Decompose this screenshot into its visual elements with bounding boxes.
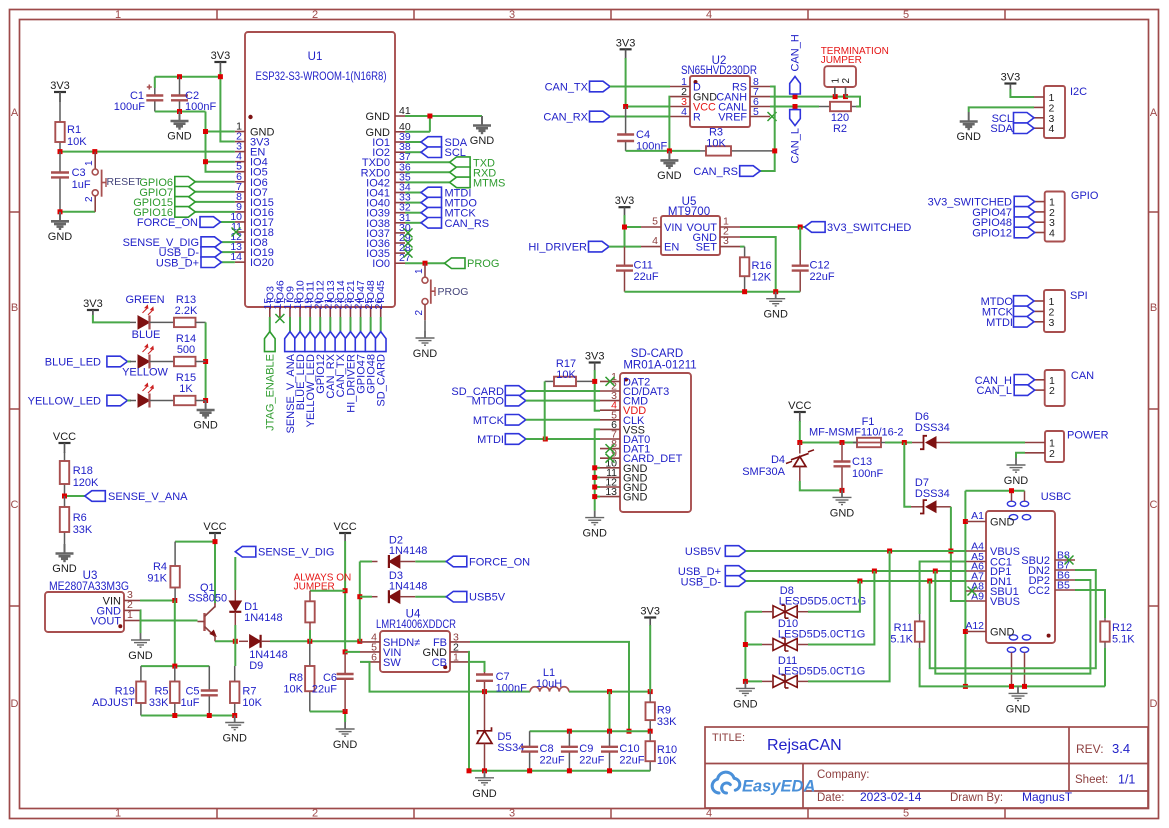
U1 pin 3 EN bbox=[235, 151, 245, 153]
net flag CAN_TX (U1 bottom) bbox=[339, 317, 341, 332]
U1 pin 26 IO45 bbox=[380, 307, 382, 317]
wire D7 to VBUS bbox=[951, 507, 966, 601]
wire D+ net bbox=[746, 570, 966, 572]
U5 pin 4 EN bbox=[641, 246, 661, 248]
svg-text:C8: C8 bbox=[540, 743, 554, 755]
svg-text:HI_DRIVER: HI_DRIVER bbox=[528, 242, 587, 254]
svg-text:A12: A12 bbox=[965, 620, 984, 632]
svg-text:IO20: IO20 bbox=[250, 257, 274, 269]
U2 pin 6 CANL bbox=[750, 106, 770, 108]
svg-text:VCC: VCC bbox=[203, 521, 226, 533]
SD pin 12 GND bbox=[600, 486, 620, 488]
no-connect X pin11 bbox=[232, 228, 241, 237]
svg-text:SPI: SPI bbox=[1070, 290, 1088, 302]
USBC pin B7 DN2 bbox=[1055, 569, 1075, 571]
U1 pin 41 GND bbox=[395, 115, 405, 117]
U1 pin 29 IO36 bbox=[395, 242, 405, 244]
U1 pin 32 IO39 bbox=[395, 212, 405, 214]
svg-text:REV:: REV: bbox=[1076, 742, 1104, 756]
resistor R1 bbox=[59, 92, 61, 122]
resistor R7 bbox=[234, 666, 236, 682]
wire U1 GND pins 41/40 bbox=[405, 115, 482, 117]
U1 pin 14 IO20 bbox=[235, 261, 245, 263]
svg-text:R8: R8 bbox=[289, 672, 303, 684]
svg-text:C5: C5 bbox=[185, 686, 199, 698]
connector SPI bbox=[1044, 290, 1065, 332]
wire C1/C2 ground rail bbox=[155, 111, 206, 113]
svg-text:GND: GND bbox=[990, 627, 1015, 639]
USBC pin A1 GND bbox=[966, 521, 986, 523]
net flag GPIO7 bbox=[195, 191, 235, 193]
svg-text:R: R bbox=[693, 112, 701, 124]
connector POWER bbox=[1045, 431, 1064, 462]
svg-text:EN: EN bbox=[664, 242, 679, 254]
capacitor C2 bbox=[179, 77, 181, 96]
wire U4 GND down bbox=[469, 652, 470, 771]
wire VCC node bbox=[799, 421, 801, 443]
svg-text:3V3: 3V3 bbox=[83, 298, 103, 310]
svg-text:BLUE: BLUE bbox=[132, 329, 161, 341]
junction 3V3 rail bbox=[177, 74, 182, 79]
net flag GPIO6 bbox=[195, 181, 235, 183]
svg-text:10K: 10K bbox=[556, 369, 576, 381]
svg-text:3: 3 bbox=[509, 9, 515, 21]
svg-text:SD_CARD: SD_CARD bbox=[376, 354, 388, 407]
svg-text:JUMPER: JUMPER bbox=[821, 55, 862, 66]
svg-text:3V3: 3V3 bbox=[1001, 72, 1021, 84]
svg-text:PROG: PROG bbox=[467, 258, 499, 270]
svg-text:3V3: 3V3 bbox=[640, 606, 660, 618]
ground (USBC) bbox=[1009, 686, 1028, 700]
svg-text:CAN_L: CAN_L bbox=[977, 385, 1012, 397]
svg-text:RESET: RESET bbox=[107, 176, 143, 188]
svg-text:GND: GND bbox=[582, 528, 607, 540]
svg-text:22uF: 22uF bbox=[579, 755, 604, 767]
net flag MTDI (SPI conn) bbox=[1014, 317, 1035, 328]
svg-text:MF-MSMF110/16-2: MF-MSMF110/16-2 bbox=[809, 427, 904, 439]
svg-text:4: 4 bbox=[1049, 228, 1055, 240]
svg-text:22uF: 22uF bbox=[540, 755, 565, 767]
load switch U5 bbox=[661, 216, 720, 255]
wire TVS common to GND bbox=[744, 612, 746, 682]
U1 pin 11 IO18 bbox=[235, 231, 245, 233]
net flag JTAG_ENABLE bbox=[269, 317, 271, 332]
svg-text:1: 1 bbox=[414, 268, 425, 274]
svg-text:CAN_L: CAN_L bbox=[790, 128, 802, 163]
U4 pin 5 VIN bbox=[360, 651, 380, 653]
svg-text:USB_D+: USB_D+ bbox=[156, 258, 199, 270]
svg-text:10K: 10K bbox=[242, 697, 262, 709]
ground (C13) bbox=[833, 490, 852, 504]
svg-text:C: C bbox=[11, 499, 19, 511]
svg-text:5.1K: 5.1K bbox=[890, 634, 913, 646]
wire U2 GND pin2 down bbox=[668, 97, 671, 151]
U1 pin 25 IO48 bbox=[370, 307, 372, 317]
net flag 3V3_SWITCHED (GPIO conn) bbox=[1014, 196, 1035, 207]
net flag GPIO12 (GPIO conn) bbox=[1014, 227, 1035, 238]
wire POWER pin2 to GND bbox=[1016, 453, 1025, 458]
svg-text:3V3: 3V3 bbox=[211, 50, 231, 62]
LED BLUE + resistor R14 + flag BLUE_LED bbox=[107, 356, 128, 367]
wire VBUS net bbox=[746, 550, 966, 552]
svg-text:VCC: VCC bbox=[333, 521, 356, 533]
ground (PROG) bbox=[416, 331, 435, 345]
net flag GPIO47 (GPIO conn) bbox=[1014, 207, 1035, 218]
resistor R8 bbox=[309, 641, 311, 666]
ground (C2) bbox=[171, 112, 189, 129]
capacitor C13 bbox=[841, 443, 843, 462]
svg-text:3V3_SWITCHED: 3V3_SWITCHED bbox=[827, 222, 911, 234]
svg-text:5: 5 bbox=[753, 106, 759, 118]
U1 pin 16 IO46 bbox=[279, 307, 281, 317]
svg-text:CB: CB bbox=[432, 657, 447, 669]
svg-text:IO45: IO45 bbox=[375, 280, 387, 303]
svg-text:C10: C10 bbox=[619, 743, 639, 755]
wire SW to L1 bbox=[360, 662, 530, 692]
power flag VCC (Q1) bbox=[209, 532, 221, 534]
svg-text:GND: GND bbox=[1004, 475, 1029, 487]
svg-text:GND: GND bbox=[52, 563, 77, 575]
resistor R6 bbox=[64, 496, 66, 507]
svg-text:GND: GND bbox=[956, 131, 981, 143]
svg-text:GND: GND bbox=[413, 348, 438, 360]
wire RS to R3 and CAN_RS bbox=[760, 87, 775, 172]
USBC pin B5 CC2 bbox=[1055, 589, 1075, 591]
svg-text:R4: R4 bbox=[153, 561, 167, 573]
wire 3V3 drop to U1 bbox=[220, 72, 235, 142]
U3 pin 1 VOUT bbox=[124, 620, 140, 622]
jumper P? termination (2-pin) bbox=[824, 66, 856, 87]
svg-text:CAN_RX: CAN_RX bbox=[543, 112, 588, 124]
wire output caps rail bbox=[609, 692, 611, 732]
USBC pin A8 SBU1 bbox=[966, 590, 986, 592]
svg-text:13: 13 bbox=[605, 486, 617, 498]
svg-text:2: 2 bbox=[84, 196, 95, 202]
diode D5 SS34 bbox=[484, 692, 486, 731]
wire R17 to MTDI bbox=[544, 381, 546, 440]
svg-text:4: 4 bbox=[1049, 123, 1055, 135]
svg-text:GND: GND bbox=[1006, 703, 1031, 715]
svg-text:1/1: 1/1 bbox=[1118, 773, 1135, 787]
U1 pin 12 IO8 bbox=[235, 241, 245, 243]
capacitor C5 bbox=[208, 666, 210, 690]
U1 pin 37 TXD0 bbox=[395, 161, 405, 163]
ground (C3) bbox=[51, 212, 69, 229]
svg-text:FORCE_ON: FORCE_ON bbox=[137, 217, 198, 229]
wire 3V3 rail bbox=[155, 76, 221, 78]
svg-text:ADJUST: ADJUST bbox=[92, 697, 135, 709]
power flag 3V3 (output) bbox=[644, 616, 656, 618]
svg-text:MTMS: MTMS bbox=[473, 178, 505, 190]
svg-text:12K: 12K bbox=[752, 272, 772, 284]
svg-text:GREEN: GREEN bbox=[125, 294, 164, 306]
no-connect X pin16 bbox=[275, 314, 284, 323]
TVS diode D11 bbox=[773, 675, 797, 687]
svg-text:4: 4 bbox=[681, 106, 687, 118]
svg-text:4: 4 bbox=[652, 235, 658, 247]
U1 pin 30 IO37 bbox=[395, 232, 405, 234]
resistor R10 bbox=[649, 731, 651, 741]
net flag MTCK (SD) bbox=[505, 415, 526, 426]
svg-text:GND: GND bbox=[333, 739, 358, 751]
svg-text:A: A bbox=[11, 107, 19, 119]
U1 pin 5 IO5 bbox=[235, 171, 245, 173]
wire USBC shield to GND vertical bbox=[965, 490, 1024, 492]
net flag FORCE_ON (D2) bbox=[446, 556, 467, 567]
svg-text:3V3: 3V3 bbox=[585, 351, 605, 363]
U1 pin 13 IO19 bbox=[235, 251, 245, 253]
svg-text:Sheet:: Sheet: bbox=[1075, 774, 1108, 786]
svg-text:10K: 10K bbox=[706, 138, 726, 150]
svg-text:VBUS: VBUS bbox=[990, 596, 1020, 608]
net flag USB_D- (USBC) bbox=[725, 576, 746, 587]
capacitor C11 bbox=[624, 247, 626, 266]
net flag 3V3_SWITCHED bbox=[805, 222, 826, 233]
capacitor C1 bbox=[154, 77, 156, 88]
U5 pin 5 VIN bbox=[641, 226, 661, 228]
ground (POWER) bbox=[1007, 458, 1026, 472]
svg-text:2.2K: 2.2K bbox=[175, 305, 198, 317]
net flag PROG bbox=[405, 262, 445, 264]
svg-text:3V3: 3V3 bbox=[50, 80, 70, 92]
svg-text:22uF: 22uF bbox=[312, 684, 337, 696]
svg-text:C4: C4 bbox=[636, 129, 650, 141]
resistor R2 120 bbox=[819, 106, 830, 108]
svg-text:SW: SW bbox=[383, 657, 401, 669]
svg-text:2: 2 bbox=[1049, 448, 1055, 460]
SD pin 3 CMD bbox=[600, 400, 620, 402]
svg-text:CAN_H: CAN_H bbox=[790, 34, 802, 71]
net flag MTDI (U1) bbox=[405, 192, 421, 194]
net flag YELLOW_LED (U1 bottom) bbox=[309, 317, 311, 332]
power flag VCC (R18) bbox=[59, 442, 71, 444]
U1 pin 20 IO12 bbox=[319, 307, 321, 317]
SD pin 1 DAT2 bbox=[600, 380, 620, 382]
svg-text:R12: R12 bbox=[1112, 622, 1132, 634]
svg-text:USB_D-: USB_D- bbox=[681, 577, 722, 589]
wire CC2 to R12 bbox=[1075, 590, 1105, 618]
svg-text:D: D bbox=[1150, 698, 1158, 710]
wire D2/D3 vertical to SHDN bbox=[359, 562, 361, 642]
U1 pin 36 RXD0 bbox=[395, 171, 405, 173]
svg-text:LESD5D5.0CT1G: LESD5D5.0CT1G bbox=[778, 629, 865, 641]
resistor R16 bbox=[744, 247, 746, 258]
U1 pin 18 IO10 bbox=[299, 307, 301, 317]
U1 pin 31 IO38 bbox=[395, 222, 405, 224]
U2 pin 1 D bbox=[670, 86, 690, 88]
svg-text:3.4: 3.4 bbox=[1112, 741, 1130, 756]
wire R12 to GND rail bbox=[1104, 648, 1106, 686]
svg-text:1: 1 bbox=[84, 160, 95, 166]
resistor R3 bbox=[700, 150, 706, 152]
net flag CAN_RX (U1 bottom) bbox=[329, 317, 331, 332]
svg-text:R5: R5 bbox=[154, 686, 168, 698]
wire VCC to VIN bbox=[344, 541, 346, 652]
diode D3 1N4148 bbox=[360, 596, 372, 598]
svg-text:6: 6 bbox=[371, 651, 377, 663]
U2 pin 7 CANH bbox=[750, 96, 770, 98]
svg-text:SET: SET bbox=[696, 242, 718, 254]
wire VOUT to 3V3_SWITCHED bbox=[740, 226, 805, 228]
svg-text:R9: R9 bbox=[657, 705, 671, 717]
capacitor C9 bbox=[568, 731, 570, 747]
svg-text:TITLE:: TITLE: bbox=[712, 732, 745, 744]
svg-text:R6: R6 bbox=[73, 512, 87, 524]
svg-text:1N4148: 1N4148 bbox=[389, 580, 428, 592]
svg-text:LESD5D5.0CT1G: LESD5D5.0CT1G bbox=[779, 596, 866, 608]
svg-text:VREF: VREF bbox=[718, 112, 747, 124]
net flag FORCE_ON (U1) bbox=[221, 221, 235, 223]
U1 pin 27 IO0 bbox=[395, 262, 405, 264]
net flag BLUE_LED (U1 bottom) bbox=[299, 317, 301, 332]
svg-text:5: 5 bbox=[903, 9, 909, 21]
svg-text:22uF: 22uF bbox=[634, 271, 659, 283]
U4 pin 3 FB bbox=[450, 641, 470, 643]
svg-text:MTCK: MTCK bbox=[473, 415, 505, 427]
svg-text:CAN_RS: CAN_RS bbox=[693, 166, 738, 178]
svg-text:GND: GND bbox=[830, 507, 855, 519]
svg-text:GND: GND bbox=[222, 733, 247, 745]
wire D6 to POWER bbox=[950, 442, 1025, 444]
wire VSS/GND rail bbox=[595, 429, 600, 510]
U3 pin 3 VIN bbox=[124, 600, 140, 602]
title block bbox=[705, 727, 1148, 808]
LED YELLOW + resistor R15 + flag YELLOW_LED bbox=[107, 395, 128, 406]
SD pin 6 VSS bbox=[600, 428, 620, 430]
net flag CAN_L (CAN conn) bbox=[1014, 385, 1035, 396]
svg-text:SDA: SDA bbox=[990, 123, 1013, 135]
U1 pin 8 IO15 bbox=[235, 201, 245, 203]
svg-text:Company:: Company: bbox=[817, 769, 869, 781]
net flag MTDO (SPI conn) bbox=[1014, 296, 1035, 307]
U1 pin 28 IO35 bbox=[395, 252, 405, 254]
svg-text:R18: R18 bbox=[73, 465, 93, 477]
svg-text:GND: GND bbox=[366, 111, 391, 123]
wire CB to C7 bbox=[470, 662, 485, 672]
svg-text:10K: 10K bbox=[283, 684, 303, 696]
svg-text:33K: 33K bbox=[149, 697, 169, 709]
ground (U2) bbox=[660, 151, 678, 168]
transistor Q1 SS8050 bbox=[203, 613, 205, 631]
svg-text:MTDO: MTDO bbox=[472, 396, 505, 408]
net flag CAN_RS bbox=[740, 166, 761, 177]
U1 pin 40 GND bbox=[395, 131, 405, 133]
wire U5 ground rail bbox=[625, 291, 801, 293]
net flag USB_D+ (USBC) bbox=[725, 566, 746, 577]
svg-text:DSS34: DSS34 bbox=[915, 422, 950, 434]
diode D9 1N4148 bbox=[239, 640, 248, 642]
ground (R7 rail) bbox=[225, 716, 244, 730]
svg-text:1N4148: 1N4148 bbox=[389, 545, 428, 557]
net flag USB_D+ (U1) bbox=[222, 261, 235, 263]
wire FB loop bbox=[470, 642, 629, 731]
wire U3 VOUT to Q1 base bbox=[140, 620, 198, 622]
svg-text:DSS34: DSS34 bbox=[915, 488, 950, 500]
wire F1 to D6 bbox=[885, 442, 912, 444]
svg-text:D4: D4 bbox=[771, 454, 785, 466]
wire I2C pin2 to GND bbox=[969, 107, 1034, 112]
SD pin 9 CARD_DET bbox=[600, 457, 620, 459]
power flag 3V3 (SD) bbox=[589, 361, 601, 363]
svg-text:C6: C6 bbox=[323, 672, 337, 684]
wire D- net bbox=[746, 580, 966, 582]
wire DP2 tie to DP1 bbox=[935, 571, 1090, 674]
diode D2 1N4148 bbox=[360, 561, 372, 563]
no-connect X B8 bbox=[1065, 556, 1074, 565]
svg-text:33K: 33K bbox=[73, 524, 93, 536]
wire PROG button to GND bbox=[424, 320, 426, 331]
U1 pin 33 IO40 bbox=[395, 202, 405, 204]
svg-text:CC2: CC2 bbox=[1028, 585, 1050, 597]
wire R11 to GND rail bbox=[920, 648, 1105, 686]
ground (U5) bbox=[766, 292, 785, 306]
SD pin 2 CD/DAT3 bbox=[600, 390, 620, 392]
wire 3V3 to I2C pin1 bbox=[1010, 89, 1034, 97]
wire SET to R16 bbox=[740, 246, 745, 248]
svg-text:5.1K: 5.1K bbox=[1112, 634, 1135, 646]
USBC pin A6 DP1 bbox=[966, 570, 986, 572]
U4 pin 2 GND bbox=[450, 651, 470, 653]
U2 pin 4 R bbox=[670, 116, 690, 118]
svg-text:2: 2 bbox=[414, 310, 425, 316]
capacitor C6 bbox=[344, 652, 346, 674]
svg-text:A1: A1 bbox=[971, 510, 984, 522]
svg-text:10K: 10K bbox=[657, 755, 677, 767]
USBC pin A7 DN1 bbox=[966, 580, 986, 582]
svg-text:3: 3 bbox=[509, 808, 515, 820]
svg-text:R11: R11 bbox=[894, 622, 913, 634]
svg-text:USBC: USBC bbox=[1041, 491, 1072, 503]
inductor L1 bbox=[530, 687, 569, 692]
svg-text:22uF: 22uF bbox=[619, 755, 644, 767]
ground (R6) bbox=[56, 544, 74, 561]
net flag USB5V (D3) bbox=[446, 591, 467, 602]
svg-text:GND: GND bbox=[470, 135, 495, 147]
USBC pin A4 VBUS bbox=[966, 550, 986, 552]
svg-text:GND: GND bbox=[763, 309, 788, 321]
svg-text:B5: B5 bbox=[1057, 580, 1070, 592]
svg-text:1: 1 bbox=[453, 651, 459, 663]
svg-text:R16: R16 bbox=[752, 260, 772, 272]
capacitor C10 bbox=[609, 731, 611, 747]
no-connect X SD pins 1/8/9 bbox=[606, 377, 615, 386]
svg-text:ESP32-S3-WROOM-1(N16R8): ESP32-S3-WROOM-1(N16R8) bbox=[256, 71, 387, 83]
svg-text:C: C bbox=[1150, 499, 1158, 511]
svg-text:2: 2 bbox=[312, 9, 318, 21]
SD pin 4 VDD bbox=[600, 409, 620, 411]
svg-text:GND: GND bbox=[193, 420, 218, 432]
svg-text:MT9700: MT9700 bbox=[668, 206, 710, 218]
U1 pin 19 IO11 bbox=[309, 307, 311, 317]
wire VIN bbox=[345, 651, 360, 653]
ground (I2C) bbox=[960, 112, 978, 129]
net flag GPIO16 bbox=[195, 211, 235, 213]
net flag SD_CARD (U1 bottom) bbox=[380, 317, 382, 332]
wire CANL net bbox=[770, 106, 819, 108]
svg-text:5: 5 bbox=[652, 216, 658, 228]
svg-text:33K: 33K bbox=[657, 716, 677, 728]
svg-text:USB5V: USB5V bbox=[469, 592, 506, 604]
net flag RXD bbox=[405, 171, 450, 173]
ground (U3) bbox=[131, 633, 150, 647]
wire U3 VIN to R4/R5 node bbox=[140, 600, 175, 602]
net flag SENSE_V_DIG (U1) bbox=[222, 241, 235, 243]
resistor R17 pullup bbox=[545, 380, 554, 382]
U1 pin 39 IO1 bbox=[395, 141, 405, 143]
ground (U1 pin41) bbox=[473, 116, 491, 133]
power flag 3V3 (U5) bbox=[619, 206, 631, 208]
diode D6 DSS34 bbox=[912, 442, 924, 444]
